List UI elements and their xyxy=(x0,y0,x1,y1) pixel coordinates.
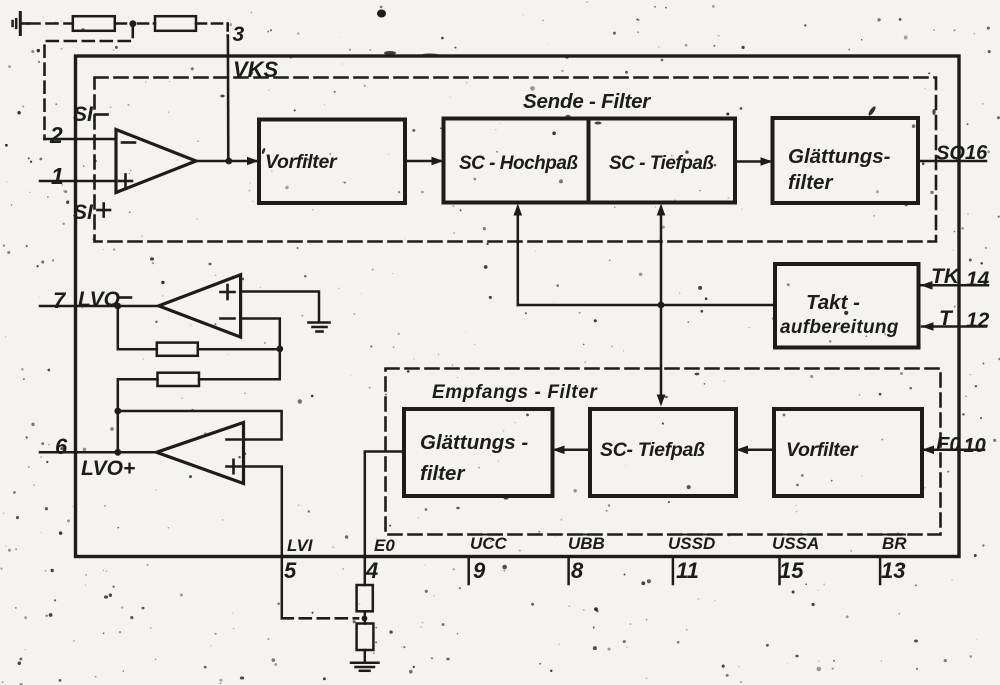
wire EO input pin 10 xyxy=(922,449,984,452)
wire dashed feedback from node to pin2 line xyxy=(45,26,133,139)
op-amp U3 (LVO+ output amplifier) xyxy=(157,423,244,484)
resistor R5 (external divider upper) xyxy=(357,585,373,611)
pin stub USSA 15 xyxy=(778,557,781,584)
pin stub UCC 9 xyxy=(467,557,470,584)
pin stub USSD 11 xyxy=(672,557,675,584)
ground (external divider) xyxy=(351,663,379,671)
wire pin 2 xyxy=(45,138,117,141)
svg-text:LVO: LVO xyxy=(78,288,120,311)
svg-text:3: 3 xyxy=(233,23,245,46)
wire R6 to ground xyxy=(364,650,367,662)
wire op-amp output to Vorfilter xyxy=(196,160,256,163)
svg-text:Vorfilter: Vorfilter xyxy=(265,151,338,173)
wire R3 right to node xyxy=(198,348,280,351)
block Glaettungsfilter (send path) xyxy=(773,118,919,203)
svg-text:12: 12 xyxy=(966,309,990,332)
svg-text:Glättungs -: Glättungs - xyxy=(420,431,528,454)
svg-text:LVO+: LVO+ xyxy=(81,457,135,480)
wire R1 to node xyxy=(115,22,126,25)
pin stub BR 13 xyxy=(879,557,882,584)
svg-text:SC - Hochpaß: SC - Hochpaß xyxy=(459,153,578,174)
svg-text:8: 8 xyxy=(571,558,584,583)
wire dashed LVI to external divider xyxy=(282,617,358,620)
pin stub UBB 8 xyxy=(567,557,570,584)
svg-text:SC- Tiefpaß: SC- Tiefpaß xyxy=(600,439,705,461)
svg-text:SC - Tiefpaß: SC - Tiefpaß xyxy=(609,153,714,174)
svg-text:BR: BR xyxy=(882,534,907,553)
wire arrow into Vorfilter xyxy=(247,157,259,166)
wire Vorfilter to SC-Tiefpass receive xyxy=(740,449,774,452)
svg-text:Vorfilter: Vorfilter xyxy=(786,439,859,461)
wire Vorfilter to SC-Hochpass xyxy=(405,160,440,163)
svg-text:E0: E0 xyxy=(374,536,395,555)
wire R5 to R6 xyxy=(364,611,367,623)
ground (top-left external) xyxy=(13,13,29,35)
wire clock to SC-Tiefpass send (arrow up) xyxy=(660,208,663,305)
svg-text:E0: E0 xyxy=(936,434,960,456)
svg-text:LVI: LVI xyxy=(287,536,314,555)
svg-text:6: 6 xyxy=(55,434,68,459)
wire U2 + input to ground xyxy=(241,292,319,322)
resistor R3 (feedback upper) xyxy=(157,343,198,356)
block Takt-aufbereitung xyxy=(775,264,919,348)
resistor R4 (feedback lower) xyxy=(158,373,200,386)
svg-text:11: 11 xyxy=(676,558,699,583)
dashed box Empfangs-Filter xyxy=(386,369,941,535)
block Glaettungsfilter (receive path) xyxy=(404,409,553,496)
svg-text:USSD: USSD xyxy=(668,534,715,553)
svg-text:2: 2 xyxy=(49,122,63,148)
wire R4 left down to pin6 node xyxy=(118,379,158,452)
wire SC-Tiefpass to Glaettungsfilter xyxy=(735,160,769,163)
block SC-Tiefpass (receive path) xyxy=(590,409,736,496)
svg-text:13: 13 xyxy=(881,558,905,583)
svg-text:Takt -: Takt - xyxy=(806,291,860,314)
wire pin 6 xyxy=(40,451,157,454)
wire R4 right to node xyxy=(199,349,280,379)
svg-text:T: T xyxy=(939,307,954,330)
block SC-Tiefpass (send path) xyxy=(589,119,736,203)
wire U2 - input to feedback node xyxy=(241,319,280,346)
wire clock to SC-Tiefpass receive (arrow down) xyxy=(660,305,663,402)
svg-text:16: 16 xyxy=(965,142,988,164)
svg-text:Sende - Filter: Sende - Filter xyxy=(523,90,651,113)
ground (U2 non-inverting input) xyxy=(309,323,330,332)
svg-text:Empfangs - Filter: Empfangs - Filter xyxy=(432,382,598,403)
wire Takt output horizontal xyxy=(518,304,775,307)
wire clock to SC-Hochpass (arrow up) xyxy=(517,208,520,305)
wire dashed ground to R1 xyxy=(29,22,73,25)
svg-text:10: 10 xyxy=(964,435,986,457)
wire R3 left to pin7 node xyxy=(118,306,157,349)
svg-text:15: 15 xyxy=(779,558,804,583)
svg-text:filter: filter xyxy=(788,171,833,194)
svg-text:7: 7 xyxy=(53,288,67,313)
svg-text:5: 5 xyxy=(284,558,297,583)
node feedback junction xyxy=(276,346,283,353)
wire SC-Tiefpass to Glaettungsfilter receive xyxy=(556,449,590,452)
svg-text:USSA: USSA xyxy=(772,534,819,553)
node pin7 feedback xyxy=(114,303,121,310)
wire pin 1 xyxy=(40,180,116,183)
node at op-amp output / pin3 xyxy=(225,158,232,165)
block Vorfilter (receive path) xyxy=(774,409,922,496)
wire dashed node to R2 xyxy=(138,22,155,25)
svg-text:TK: TK xyxy=(931,265,961,288)
wire U3 - input link xyxy=(118,411,282,440)
svg-text:UCC: UCC xyxy=(470,534,508,553)
node pin6 xyxy=(114,449,121,456)
node divider tap xyxy=(362,616,368,622)
svg-text:Glättungs-: Glättungs- xyxy=(788,145,891,168)
svg-text:SI: SI xyxy=(73,201,94,224)
wire pin 7 xyxy=(40,305,159,308)
wire U3 + input to LVI pin 5 xyxy=(244,467,282,619)
svg-text:14: 14 xyxy=(966,268,990,291)
resistor R2 (external top) xyxy=(155,16,196,31)
wire SO output pin 16 xyxy=(918,160,986,163)
wire Glaettungsfilter out to pin EO 4 xyxy=(365,452,404,586)
wire T input pin 12 xyxy=(922,325,986,328)
wire dashed R2 to pin3 corner xyxy=(196,22,228,25)
svg-text:UBB: UBB xyxy=(568,534,605,553)
svg-text:aufbereitung: aufbereitung xyxy=(780,317,899,338)
IC outline VKS xyxy=(76,56,960,557)
svg-text:1: 1 xyxy=(51,163,64,189)
op-amp U1 (SI input amplifier) xyxy=(116,130,196,193)
node junction between R1 and R2 xyxy=(129,20,136,27)
resistor R6 (external divider lower) xyxy=(357,624,374,651)
node on pin6 branch xyxy=(114,408,121,415)
svg-text:filter: filter xyxy=(420,462,465,485)
resistor R1 (external top) xyxy=(73,16,115,31)
dashed box Sende-Filter xyxy=(95,78,937,242)
wire TK input pin 14 xyxy=(921,284,988,287)
svg-text:SI: SI xyxy=(73,103,94,126)
wire pin3 vertical into chip xyxy=(226,24,229,37)
svg-text:4: 4 xyxy=(365,558,378,583)
svg-text:9: 9 xyxy=(473,558,486,583)
op-amp U2 (LVO- output amplifier) xyxy=(159,275,241,337)
node clock wire junction xyxy=(658,302,665,309)
block Vorfilter (send path) xyxy=(259,120,405,204)
svg-text:SO: SO xyxy=(936,143,965,165)
block SC-Hochpass xyxy=(444,119,589,203)
